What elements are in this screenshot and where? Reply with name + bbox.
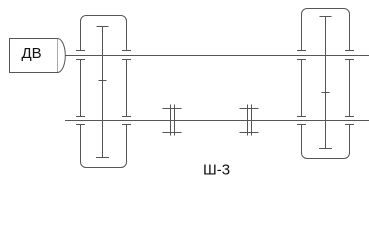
- bearing B8 housing2 right wall / lower shaft: [345, 117, 354, 125]
- svg-text:Ш-3: Ш-3: [203, 162, 230, 179]
- bearing B1 housing1 left wall / upper shaft: [76, 51, 85, 60]
- lower shaft (output shaft): [65, 120, 369, 122]
- coupling M2 on lower shaft: [240, 105, 259, 136]
- coupling M1 on lower shaft: [163, 105, 182, 136]
- svg-text:ДВ: ДВ: [22, 45, 42, 62]
- gearbox housing 2 (right): [302, 9, 350, 159]
- gearbox housing 1 (left): [81, 16, 127, 168]
- bearing B7 housing2 left wall / lower shaft: [297, 117, 306, 125]
- bearing B6 housing2 right wall / upper shaft: [345, 51, 354, 60]
- upper shaft (motor shaft): [65, 55, 369, 57]
- motor ДВ end dome: [58, 39, 66, 73]
- gear line G2 in housing 2: [319, 17, 332, 149]
- bearing B3 housing1 left wall / lower shaft: [76, 117, 85, 125]
- bearing B2 housing1 right wall / upper shaft: [122, 51, 131, 60]
- bearing gap masks: [79, 51, 352, 124]
- bearing B5 housing2 left wall / upper shaft: [297, 51, 306, 60]
- motor ДВ body: [10, 39, 58, 73]
- gear line G1 in housing 1: [96, 27, 109, 158]
- bearing B4 housing1 right wall / lower shaft: [122, 117, 131, 125]
